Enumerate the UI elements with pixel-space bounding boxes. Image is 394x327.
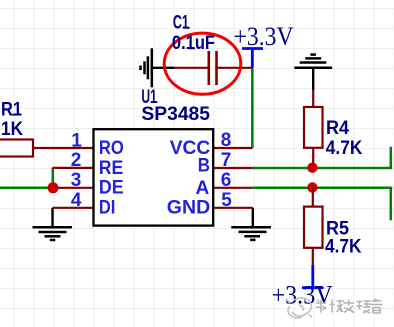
junction: R4/net B	[307, 163, 317, 173]
wire: pin 6 stub	[213, 187, 252, 189]
junction: R5/net A	[307, 182, 317, 192]
wire: maroon from ground column to R4	[312, 90, 314, 107]
svg-text:C1: C1	[173, 13, 189, 34]
ground: sideways at C1 left plate	[141, 48, 175, 87]
wire: pin 4 stub	[53, 207, 94, 209]
svg-text:7: 7	[221, 150, 232, 171]
wire: green net to DE from left edge	[0, 187, 53, 190]
svg-text:8: 8	[221, 130, 232, 151]
ground: below pin 5 (GND)	[231, 208, 271, 240]
svg-text:DI: DI	[99, 198, 116, 219]
wire: green net B vertical stub up at right edge	[390, 147, 393, 168]
svg-text:R1: R1	[1, 100, 22, 121]
svg-text:+3.3V: +3.3V	[272, 281, 333, 310]
wire: green net A vertical stub down at right edge	[390, 188, 393, 221]
wire: R4 bottom to net B	[312, 148, 314, 168]
svg-text:RE: RE	[99, 158, 123, 179]
junction: RE/DE node	[48, 182, 59, 193]
capacitor C1	[174, 51, 252, 85]
resistor R5	[304, 207, 323, 248]
resistor R4	[304, 107, 323, 148]
svg-text:1: 1	[71, 130, 82, 151]
wire: R1 to pin 1	[33, 147, 94, 149]
watermark text 科技老顽童	[316, 299, 383, 313]
wire: pin 2 stub	[52, 167, 93, 169]
wire: green net B from pin 7 to right	[252, 167, 392, 170]
wire: green net A from pin 6 to right	[252, 187, 392, 190]
wire: net A to R5 top	[312, 188, 314, 207]
watermark logo doodle	[287, 298, 312, 318]
ground: inverted earth symbol top right	[294, 55, 332, 90]
svg-text:GND: GND	[167, 198, 210, 219]
svg-text:R4: R4	[326, 118, 349, 139]
svg-text:0.1uF: 0.1uF	[172, 33, 215, 54]
annotation: red ellipse around C1	[164, 33, 241, 94]
svg-text:4.7K: 4.7K	[326, 138, 363, 159]
wire: pin 3 stub to junction	[53, 187, 94, 189]
svg-text:5: 5	[221, 190, 232, 211]
wire: pin 5 stub	[213, 207, 253, 209]
svg-text:1K: 1K	[1, 119, 23, 140]
op-amp U1 body (SP3485 IC)	[94, 129, 214, 225]
svg-text:A: A	[196, 178, 210, 199]
wire: pin 8 stub to VCC rail	[213, 147, 252, 149]
power port +3.3V top (bar symbol)	[242, 49, 263, 68]
svg-text:DE: DE	[99, 178, 124, 199]
svg-text:SP3485: SP3485	[141, 104, 210, 125]
svg-text:6: 6	[221, 170, 232, 191]
resistor R1	[0, 140, 33, 157]
svg-text:RO: RO	[99, 138, 124, 159]
power port +3.3V bottom (bar symbol)	[302, 265, 324, 288]
svg-text:4.7K: 4.7K	[325, 237, 362, 258]
svg-text:B: B	[198, 155, 210, 176]
svg-text:2: 2	[71, 150, 82, 171]
svg-text:+3.3V: +3.3V	[234, 22, 294, 51]
wire: green vertical tying RE to DE junction	[52, 168, 55, 188]
wire: green VCC rail vertical from C1 node down to pin 8	[251, 68, 254, 148]
svg-text:4: 4	[71, 190, 82, 211]
svg-text:3: 3	[71, 170, 82, 191]
wire: R5 bottom to power bar	[312, 248, 314, 265]
wire: pin 7 stub	[213, 167, 252, 169]
ground: below pin 4 (DI)	[33, 208, 73, 240]
